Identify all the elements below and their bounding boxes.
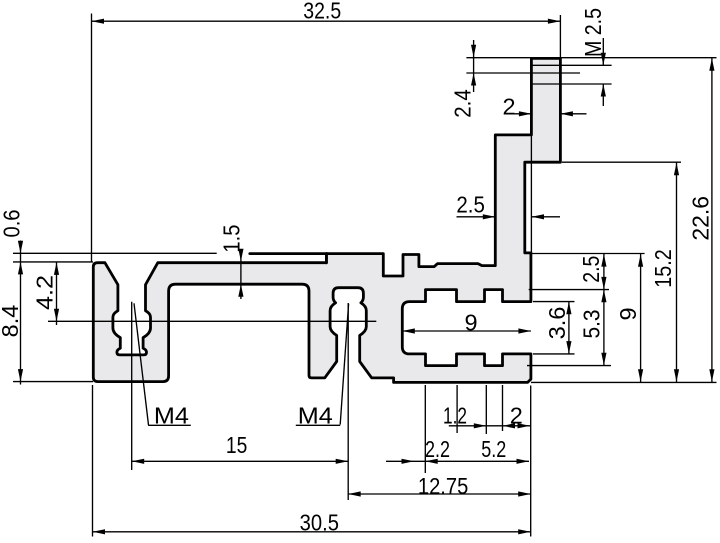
svg-text:30.5: 30.5: [300, 510, 339, 536]
M2.5 thread lines in tower: [532, 64, 612, 66]
svg-text:3.6: 3.6: [544, 307, 570, 340]
dim 15.2: [676, 162, 678, 382]
svg-text:15.2: 15.2: [650, 249, 676, 288]
svg-text:2.2: 2.2: [425, 436, 450, 462]
svg-text:2.4: 2.4: [450, 89, 476, 118]
dim M 2.5: [602, 38, 604, 65]
dim 2.2 / 5.2 (row y=461.3): [386, 460, 529, 462]
svg-text:32.5: 32.5: [303, 0, 341, 24]
svg-text:22.6: 22.6: [688, 196, 714, 241]
dim 9 (right vertical): [640, 254, 642, 383]
svg-text:8.4: 8.4: [0, 305, 23, 338]
dim 1.2 / 2 (row y=425.8): [449, 425, 530, 427]
svg-text:2: 2: [510, 402, 523, 428]
svg-text:0.6: 0.6: [0, 210, 25, 238]
svg-text:5.3: 5.3: [579, 309, 605, 338]
svg-text:15: 15: [226, 432, 247, 458]
extrusion profile body (filled outline): [93, 58, 560, 382]
svg-text:4.2: 4.2: [32, 275, 58, 310]
dim 4.2: [56, 262, 58, 325]
svg-text:1.5: 1.5: [219, 225, 245, 253]
svg-text:12.75: 12.75: [418, 473, 468, 499]
dim 12.75: [348, 493, 531, 495]
svg-text:9: 9: [465, 310, 478, 336]
svg-text:2.5: 2.5: [456, 191, 485, 217]
step under lip: [325, 254, 328, 263]
dim 2.5 (tower lower width): [457, 216, 496, 218]
svg-text:2.5: 2.5: [578, 256, 604, 283]
M4 labels and leaders: [134, 303, 149, 425]
svg-text:5.2: 5.2: [481, 436, 506, 462]
svg-text:1.2: 1.2: [443, 402, 467, 428]
dim 22.6: [711, 58, 713, 383]
dim 30.5: [93, 531, 531, 533]
svg-text:9: 9: [615, 307, 641, 320]
svg-text:M4: M4: [154, 403, 189, 429]
dim 2.5 (right, vertical) + dim 5.3: [603, 254, 605, 366]
svg-text:M4: M4: [298, 403, 333, 429]
dim 0.6 / 8.4 (left vertical line): [20, 241, 22, 385]
dim 2 (tower width): [505, 113, 532, 115]
dim 1.5: [240, 253, 242, 300]
svg-text:2: 2: [502, 93, 515, 119]
extension lines: [91, 14, 93, 263]
svg-text:M 2.5: M 2.5: [580, 8, 606, 57]
dim 15: [132, 460, 349, 462]
0.6 step lip (raised tongue): [250, 252, 327, 255]
dim 2.4: [473, 40, 475, 92]
dim 3.6: [568, 302, 570, 354]
dim 32.5: [92, 20, 561, 22]
dim 9 (slot, horizontal): [402, 330, 531, 332]
